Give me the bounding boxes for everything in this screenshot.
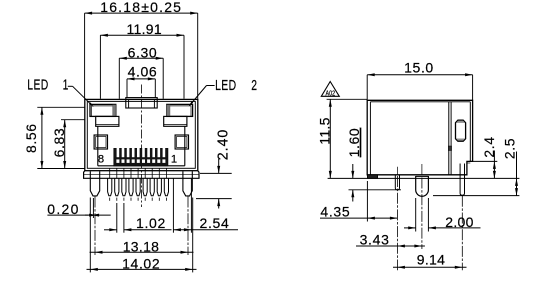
mounting post left front (90, 171, 99, 196)
dim 14.02 ext right (192, 198, 194, 273)
seating plane datum line (328, 177, 520, 179)
dim 2.4 ext top (469, 160, 497, 162)
body top inner line side (370, 101, 470, 103)
dim 9.14 line (393, 266, 467, 268)
revision triangle A02 (321, 82, 339, 97)
latch arm joint (448, 146, 451, 151)
plug opening bottom (98, 165, 185, 167)
svg-text:9.14: 9.14 (417, 252, 445, 268)
shelf right (164, 116, 187, 126)
svg-text:LED: LED (27, 76, 48, 93)
dim 13.18 line (90, 251, 194, 253)
svg-text:11.91: 11.91 (126, 21, 162, 37)
svg-text:2: 2 (251, 76, 257, 93)
dim 6.83 ext top (61, 119, 85, 121)
post centerline ext (421, 178, 423, 250)
svg-text:1: 1 (63, 76, 69, 93)
dim 8.56 ext top (37, 106, 85, 108)
svg-text:14.02: 14.02 (122, 256, 160, 272)
svg-text:2.54: 2.54 (199, 215, 229, 231)
shelf left (96, 116, 119, 126)
latch button (456, 120, 466, 141)
mounting post side view (416, 176, 429, 196)
shield pin side view (460, 164, 464, 196)
post hidden line inside body (421, 164, 423, 175)
svg-text:1.02: 1.02 (136, 215, 166, 231)
dim 4.06 line (127, 78, 155, 80)
mounting post right front (183, 171, 192, 196)
body left inner line side (369, 102, 371, 175)
dim 8.56 ext bottom (37, 168, 85, 170)
latch slot right (175, 135, 188, 149)
latch separation line (448, 102, 450, 175)
svg-text:6.83: 6.83 (51, 128, 67, 158)
contact pins front (109, 169, 111, 179)
dim 2.54 ext left (172, 197, 174, 233)
dim 14.02 ext left (89, 198, 91, 273)
svg-text:A02: A02 (326, 90, 336, 98)
svg-text:11.5: 11.5 (317, 117, 333, 144)
body right inner line side (469, 102, 471, 162)
svg-text:4.35: 4.35 (320, 203, 350, 219)
svg-text:LED: LED (215, 76, 236, 93)
jack body inner line front (87, 101, 195, 168)
dim 1.02 ext right (123, 203, 125, 233)
svg-text:15.0: 15.0 (404, 59, 434, 75)
svg-text:2.4: 2.4 (481, 136, 497, 157)
dim 3.43 line (356, 245, 425, 247)
reference line pin pitch (172, 178, 174, 196)
svg-text:3.43: 3.43 (360, 232, 390, 248)
LED window right (167, 104, 193, 116)
svg-text:2.40: 2.40 (216, 129, 232, 160)
dim 2.40 ext bottom (196, 198, 232, 200)
top key tab (126, 98, 157, 108)
LED window left (90, 104, 116, 116)
dim 0.20 ref line (92, 198, 94, 218)
dim 15.0 line (367, 74, 472, 76)
svg-text:16.18±0.25: 16.18±0.25 (100, 0, 182, 15)
contact comb (114, 148, 168, 166)
reference line shield (190, 178, 192, 196)
dim 11.5 ext top (327, 98, 368, 100)
latch slot left (94, 135, 107, 149)
dim 16.18 line (85, 12, 198, 14)
dim 1.60 ext bottom (349, 189, 402, 191)
bottom flange front (84, 171, 199, 179)
jack body outline front (85, 99, 198, 170)
svg-text:8.56: 8.56 (23, 123, 39, 153)
svg-text:1: 1 (171, 154, 177, 166)
shield pin centerline ext (461, 196, 463, 270)
svg-text:2.5: 2.5 (502, 138, 518, 159)
dim 2.40 ext top (200, 172, 232, 174)
pin hidden line inside body (396, 167, 398, 175)
svg-text:8: 8 (98, 154, 104, 166)
dim 2.54 ext right (190, 197, 192, 233)
svg-text:13.18: 13.18 (123, 238, 160, 254)
standoff foot side view (367, 175, 377, 179)
dim 1.02 ext left (116, 203, 118, 233)
dim 6.30 line (119, 57, 163, 59)
svg-text:1.60: 1.60 (346, 128, 362, 158)
svg-text:2.00: 2.00 (445, 214, 473, 230)
dim 2.00 ext right (427, 198, 429, 232)
dim 4.35 ext (366, 181, 368, 222)
plug opening right wall (184, 126, 186, 166)
svg-text:6.30: 6.30 (128, 45, 158, 61)
contact pin side view (395, 175, 399, 190)
jack body outline side (367, 100, 472, 175)
post centerline left (94, 197, 96, 256)
dim 11.91 line (100, 34, 184, 36)
plug opening left wall (97, 126, 99, 166)
svg-text:4.06: 4.06 (128, 63, 158, 79)
dim 2.5 ext bottom (433, 195, 519, 197)
dim 2.00 ext left (415, 198, 417, 232)
post centerline right (187, 197, 189, 256)
pin centerline ext (396, 176, 398, 270)
centerline front view (140, 85, 142, 208)
